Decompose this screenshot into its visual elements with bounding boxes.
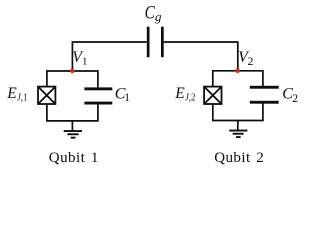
wire: qubit 1 right branch lower <box>97 104 99 122</box>
wire down to node V2 (vertical segment) <box>237 42 239 71</box>
capacitor C1 <box>84 87 112 104</box>
node V1 (red junction dot) <box>70 69 75 74</box>
wire: qubit 2 loop top <box>213 70 263 72</box>
svg-text:2: 2 <box>292 93 298 105</box>
wire: qubit 1 right branch upper <box>97 70 99 88</box>
svg-text:1: 1 <box>124 92 130 104</box>
svg-text:Qubit 1: Qubit 1 <box>49 150 99 166</box>
svg-text:1: 1 <box>82 56 88 68</box>
Josephson junction EJ,1 (box with X) <box>38 87 55 104</box>
svg-text:g: g <box>155 9 162 24</box>
wire: qubit 2 left branch upper <box>212 70 214 87</box>
svg-text:J,1: J,1 <box>17 92 28 104</box>
label V1 <box>72 49 87 68</box>
caption Qubit 2 <box>214 150 264 166</box>
caption Qubit 1 <box>49 150 99 166</box>
node V2 (red junction dot) <box>235 68 240 73</box>
label C2 <box>282 85 298 105</box>
Josephson junction EJ,2 (box with X) <box>204 87 221 104</box>
svg-text:J,2: J,2 <box>185 92 196 104</box>
coupling capacitor Cg <box>147 27 164 58</box>
wire from node V1 up to Cg left plate (vertical segment) <box>71 42 73 71</box>
svg-text:C: C <box>145 2 156 23</box>
ground (qubit 2) <box>229 121 247 139</box>
svg-text:E: E <box>6 85 17 102</box>
label C1 <box>115 85 131 104</box>
wire horizontal segment to Cg left plate <box>72 41 147 43</box>
capacitor C2 <box>250 86 279 104</box>
wire: qubit 1 left branch lower <box>46 104 48 122</box>
wire: qubit 2 loop bottom <box>213 120 263 122</box>
label EJ,1 <box>6 85 27 104</box>
wire: qubit 2 right branch upper <box>262 70 264 87</box>
svg-text:Qubit 2: Qubit 2 <box>214 150 264 166</box>
label Cg <box>145 2 162 24</box>
wire: qubit 1 loop bottom <box>47 120 98 122</box>
wire: qubit 1 loop top <box>47 70 98 72</box>
ground (qubit 1) <box>64 121 82 139</box>
wire horizontal segment from Cg right plate <box>164 41 239 43</box>
wire: qubit 2 left branch lower <box>212 104 214 121</box>
wire: qubit 2 right branch lower <box>262 103 264 122</box>
wire: qubit 1 left branch upper <box>46 70 48 87</box>
label EJ,2 <box>174 85 195 104</box>
svg-text:2: 2 <box>248 56 254 68</box>
label V2 <box>238 49 253 68</box>
svg-text:E: E <box>174 85 185 102</box>
